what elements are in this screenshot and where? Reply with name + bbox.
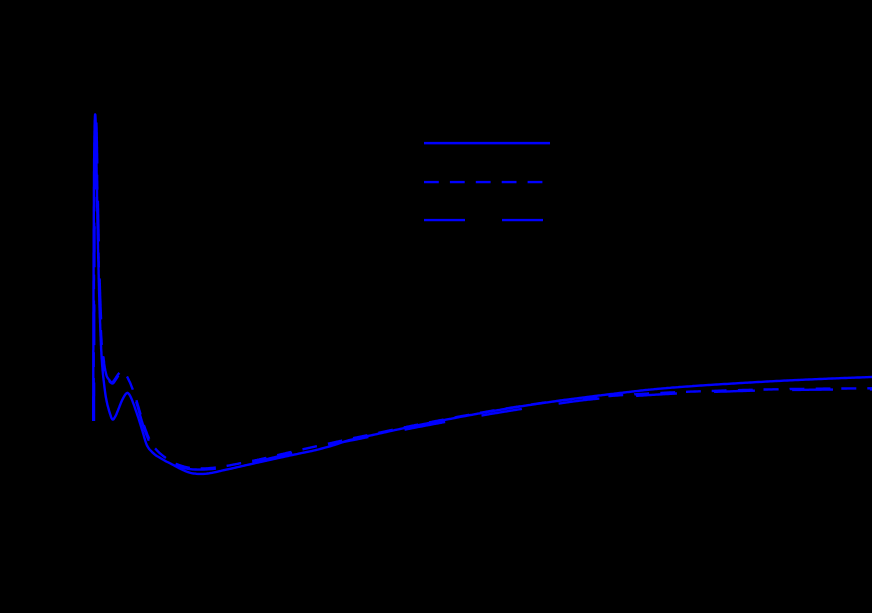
curve: short-dashed <box>94 119 872 469</box>
legend short-dash line sample <box>424 181 543 183</box>
legend long-dash line sample <box>424 219 543 221</box>
curve: long-dashed <box>94 123 872 470</box>
curve: solid <box>93 114 872 474</box>
legend solid line sample <box>424 142 550 145</box>
